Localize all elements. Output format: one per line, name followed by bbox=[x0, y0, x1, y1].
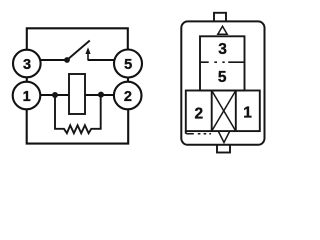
wire bottom loop from terminal 1 to terminal 2 bbox=[27, 109, 129, 144]
svg-text:5: 5 bbox=[124, 57, 132, 73]
svg-text:3: 3 bbox=[23, 57, 31, 73]
terminal 1 bbox=[13, 82, 41, 110]
pin block 2/1 outline bbox=[186, 91, 260, 132]
connector bottom mounting tab bbox=[217, 145, 230, 153]
relay connector body outline bbox=[181, 21, 264, 144]
pin block 3/5 outline bbox=[200, 36, 245, 90]
wire stub terminal 5 to terminal 2 bbox=[127, 77, 129, 83]
polarization key triangle (bottom, pointing down) bbox=[218, 131, 229, 142]
wire stub terminal 3 to terminal 1 bbox=[26, 77, 28, 83]
junction node left of coil bbox=[52, 92, 58, 98]
relay coil K1 bbox=[69, 74, 85, 114]
polarization key triangle (top, pointing up) bbox=[218, 26, 227, 34]
pin block left edge lower stub bbox=[185, 131, 187, 134]
svg-text:2: 2 bbox=[124, 89, 132, 105]
svg-text:1: 1 bbox=[23, 89, 31, 105]
keyway box with X (blocked cavity) bbox=[212, 91, 236, 132]
wire terminal 1 to terminal 2 through coil bbox=[41, 94, 114, 96]
centerline divider between pin 3 and pin 5 bbox=[201, 61, 244, 63]
terminal 5 bbox=[114, 50, 142, 78]
svg-text:3: 3 bbox=[218, 41, 227, 58]
junction node right of coil bbox=[98, 92, 104, 98]
svg-text:1: 1 bbox=[243, 105, 252, 122]
terminal 2 bbox=[114, 82, 142, 110]
terminal 3 bbox=[13, 50, 41, 78]
wire terminal 3 to switch contact bbox=[41, 59, 68, 61]
svg-text:5: 5 bbox=[218, 69, 227, 86]
resistor R1 (parallel with coil) bbox=[55, 95, 101, 133]
switch contact dot bbox=[64, 57, 70, 63]
connector top mounting tab bbox=[214, 13, 226, 22]
switch blade S1 bbox=[67, 41, 90, 61]
svg-text:2: 2 bbox=[194, 105, 203, 122]
switch actuation arrow bbox=[85, 47, 90, 60]
wire top loop from terminal 3 to terminal 5 bbox=[27, 28, 128, 50]
wire switch to terminal 5 bbox=[88, 59, 114, 61]
hidden edge dash-dot line under pin 2 bbox=[186, 133, 211, 135]
